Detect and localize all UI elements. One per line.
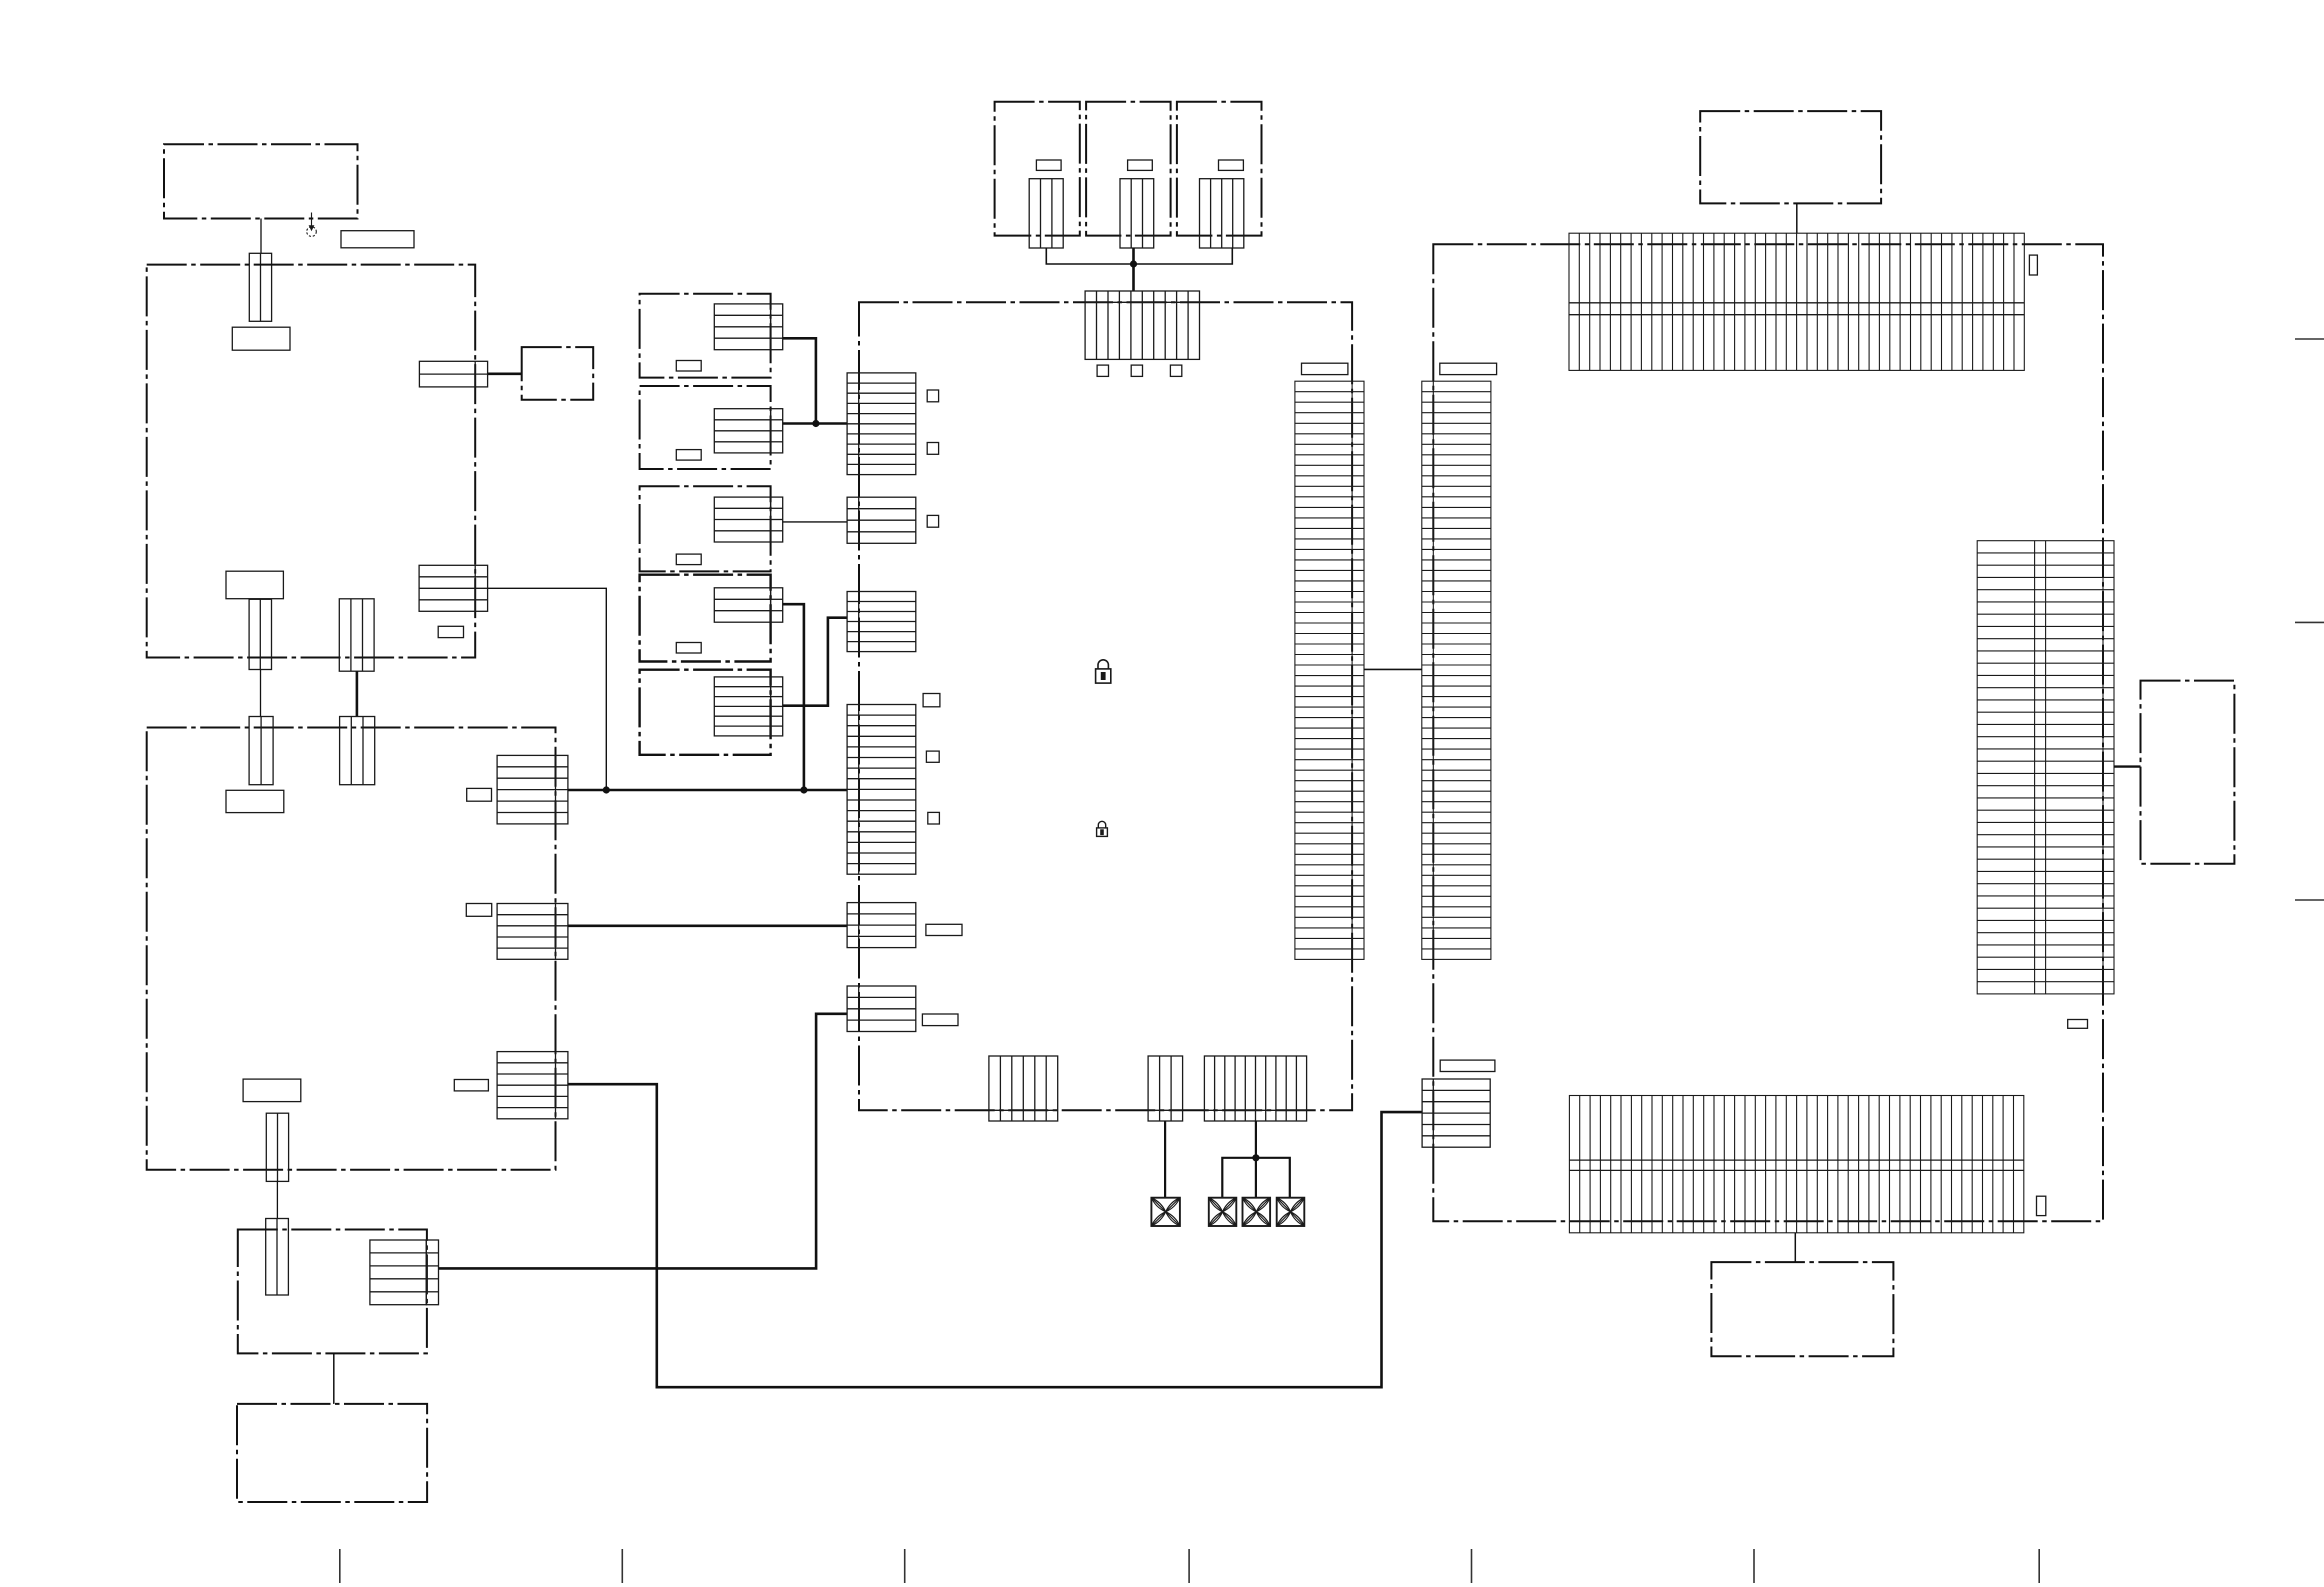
wire: R4 down to box W1 <box>1794 1233 1796 1262</box>
connector block P3 (6-row) on main board left edge <box>847 592 916 652</box>
connector CN-P7 (bottom, 6-pin) <box>989 1056 1058 1121</box>
pad square right of P1 (upper) <box>927 390 938 402</box>
label box above Q2 <box>1440 363 1497 374</box>
small pin box right of R4 <box>2037 1196 2046 1215</box>
connector CN-C1 (2-pin) on box C top edge <box>266 1219 289 1296</box>
connector CN-B3 (6-row) on board B right edge <box>497 755 568 824</box>
wire: T2 down to main board top connector <box>1132 248 1135 291</box>
junction: spine with M4 drop <box>800 786 807 793</box>
pad square 2 below CN-P0 <box>1131 365 1142 376</box>
connector block Q2 (55-row) on right board left edge <box>1422 381 1491 959</box>
small label box below R2 <box>2068 1020 2088 1029</box>
connector J1 (2-pin) on board A top edge <box>249 253 271 321</box>
wire: fan bus to fans 2 and 4 <box>1222 1158 1290 1198</box>
pad square right of P2 <box>927 515 938 527</box>
connector CN-M2 narrow pin column <box>771 409 783 453</box>
CN-P7 bottom strip line <box>989 1109 1058 1111</box>
connector block R1 (top, 44-pin) of right board <box>1569 233 2024 370</box>
connector CN-M3 (4-row) <box>714 497 770 542</box>
connector R3 (6-row) on right board left edge <box>1422 1079 1490 1147</box>
label box above R3 <box>1440 1060 1495 1071</box>
box C outline (dash-dot) <box>238 1230 427 1354</box>
label box (empty) near J1 <box>341 231 414 248</box>
connector CN-M4 narrow pin column <box>771 588 783 622</box>
connector CN-M2 (4-row) <box>714 409 770 453</box>
wire: Q1 to Q2 bridge <box>1364 668 1422 670</box>
label box inside board B (upper) <box>226 790 284 812</box>
box U1 (top-right, dash-dot) <box>1700 111 1881 203</box>
connector CN-A2 (2-pin) on board A bottom edge <box>249 599 271 669</box>
label box inside board A (lower) <box>226 571 283 599</box>
wire: CN-M4 right and down to spine <box>783 604 804 790</box>
wire: CN-A1 to small module box <box>488 372 522 375</box>
box V1 (far right, dash-dot) <box>2141 681 2235 864</box>
connector CN-B4 (5-row) on board B right edge <box>497 904 568 960</box>
label box in M4 <box>676 643 701 654</box>
connector CN-P8 (bottom, 3-pin) <box>1148 1056 1183 1121</box>
wire: CN-C2 right, up, into main board block P6 <box>439 1014 848 1269</box>
label box right of P6 <box>922 1014 958 1026</box>
connector CN-M3 narrow pin column <box>771 497 783 542</box>
CN-P9 bottom strip line <box>1204 1109 1306 1111</box>
label box in T2 <box>1128 160 1153 170</box>
connector CN-A3 (3-pin) on board A bottom edge <box>339 599 374 671</box>
connector CN-B2 (3-pin) on board B top edge <box>340 717 375 785</box>
junction: spine with CN-A4 drop <box>603 786 610 793</box>
connector CN-T2 (3-pin) <box>1120 179 1154 248</box>
pad square right of P4 (top) <box>923 694 940 707</box>
connector block R2 (right, 37-row) of right board <box>1977 541 2114 994</box>
connector CN-T3 (4-pin) <box>1200 179 1244 248</box>
pad square 3 below CN-P0 <box>1170 365 1181 376</box>
CN-P8 bottom strip line <box>1148 1109 1183 1111</box>
R4 band lines <box>1569 1160 2023 1170</box>
board B outline (dash-dot) <box>147 728 556 1170</box>
connector block P6 (4-row) on main board left edge <box>847 986 916 1032</box>
connector block P2 (4-row) on main board left edge <box>847 497 916 543</box>
connector CN-M1 (4-row) <box>714 304 770 350</box>
small label box left of CN-B5 <box>454 1080 488 1091</box>
label box in T3 <box>1219 160 1244 170</box>
pad square right of P1 (lower) <box>927 443 938 455</box>
right board outline (dash-dot) <box>1433 244 2103 1221</box>
wire: CN-M2 to main board block P1 <box>783 422 847 425</box>
connector CN-C2 narrow pin column <box>426 1240 438 1305</box>
fan M1 (fan motor symbol) <box>1151 1198 1180 1226</box>
connector block R4 (bottom, 44-pin) of right board <box>1569 1096 2023 1233</box>
wire: CN-M1 right and down <box>783 338 816 423</box>
board A outline (dash-dot) <box>147 265 476 658</box>
padlock icon (large) inside main board <box>1096 660 1111 683</box>
junction: fan bus <box>1252 1154 1259 1161</box>
wire: CN-P9 down to fan bus <box>1255 1121 1257 1158</box>
wire: spine CN-B3 to main board block P4 <box>568 789 847 792</box>
pad square right of P4 (bottom) <box>928 812 940 824</box>
label box in M1 <box>676 361 701 372</box>
wire: CN-A4 right then down to spine <box>488 588 607 790</box>
box M4 outline (dash-dot) <box>640 575 771 662</box>
pad square 1 below CN-P0 <box>1097 365 1108 376</box>
wire: box C to box D <box>333 1353 335 1404</box>
connector CN-T1 (3-pin) <box>1029 179 1063 248</box>
small label box left of CN-B4 <box>466 904 491 917</box>
wire: R2 to box V1 <box>2114 765 2141 767</box>
box T1 outline (dash-dot) <box>995 102 1080 236</box>
wire: CN-B5 long run to right board bottom connector <box>568 1084 1422 1387</box>
fan M2 (fan motor symbol) <box>1209 1198 1237 1226</box>
connector CN-P0 top strip line <box>1085 301 1199 303</box>
box W1 (bottom, dash-dot) <box>1711 1262 1893 1356</box>
connector CN-P9 (bottom, 10-pin) <box>1204 1056 1306 1121</box>
label box in M2 <box>676 450 701 461</box>
page fold tick marks (right edge) <box>2295 339 2324 900</box>
label box inside board B (lower) <box>243 1079 301 1102</box>
fan M4 (fan motor symbol) <box>1277 1198 1305 1226</box>
box T2 outline (dash-dot) <box>1086 102 1171 236</box>
wire: U1 down to right board top connector <box>1796 203 1798 233</box>
R1 band lines <box>1569 303 2024 315</box>
connector CN-B6 (2-pin) on board B bottom edge <box>266 1113 288 1181</box>
label box right of P5 <box>926 924 962 935</box>
connector block Q1 (55-row) on main board right edge <box>1295 381 1364 959</box>
connector CN-M5 narrow pin column <box>771 677 783 736</box>
small pin box right of R1 <box>2029 255 2037 275</box>
connector CN-A1 (2-row) on board A right edge <box>419 361 487 387</box>
box: small module (dash-dot) <box>522 347 594 400</box>
wire: CN-A2 down to CN-B1 <box>260 670 262 717</box>
wire: T1/T3 bus <box>1046 248 1232 264</box>
box M1 outline (dash-dot) <box>640 294 771 378</box>
wire: CN-P8 down to fan 1 <box>1164 1121 1166 1198</box>
connector CN-B5 (6-row) on board B right edge <box>497 1052 568 1119</box>
connector block P5 (4-row) on main board left edge <box>847 903 916 948</box>
padlock icon (small) inside main board <box>1097 821 1108 836</box>
box M2 outline (dash-dot) <box>640 386 771 469</box>
connector CN-B1 (2-pin) on board B top edge <box>249 717 273 785</box>
label box in M3 <box>676 554 701 565</box>
wire: CN-M5 right, up, into main board block P3 <box>783 618 847 706</box>
wire: top-left unit to connector J1 <box>260 219 262 254</box>
main board outline (dash-dot) <box>859 302 1352 1110</box>
connector CN-P0 (top, 10-pin) <box>1085 291 1199 359</box>
small label box left of CN-B3 <box>467 788 492 801</box>
wire: CN-M3 to main board block P2 <box>783 521 847 523</box>
junction: T bus with T2 drop <box>1130 260 1137 267</box>
label box inside board A (upper) <box>232 327 290 350</box>
connector CN-A4 (4-row) on board A right edge <box>419 565 488 611</box>
wire: CN-B4 to main board block P5 <box>568 924 847 927</box>
wire: CN-B6 down to CN-C1 <box>276 1181 278 1218</box>
box M3 outline (dash-dot) <box>640 486 771 571</box>
junction: M1 drop joins M2 wire <box>812 420 819 427</box>
connector block P1 (10-row) on main board left edge <box>847 373 916 475</box>
arrow-into-circle (plug-in point) symbol <box>307 213 317 237</box>
connector CN-C2 (5-row) on box C right edge <box>370 1240 426 1305</box>
connector CN-M1 narrow pin column <box>771 304 783 350</box>
label box above Q1 <box>1302 363 1348 374</box>
connector block P4 (16-row) on main board left edge <box>847 705 916 875</box>
box T3 outline (dash-dot) <box>1177 102 1262 236</box>
fan M3 (fan motor symbol) <box>1243 1198 1271 1226</box>
box M5 outline (dash-dot) <box>640 670 771 755</box>
box D outline (dash-dot) <box>237 1404 427 1502</box>
wire: fan bus down to fan 3 <box>1255 1158 1257 1198</box>
connector CN-M4 (3-row) <box>714 588 770 622</box>
pad square right of P4 (middle) <box>926 751 939 762</box>
page fold tick marks (bottom edge) <box>340 1549 2039 1583</box>
small label box below CN-A4 <box>438 626 463 637</box>
label box in T1 <box>1036 160 1061 170</box>
box: top-left unit (dash-dot outline) <box>164 144 358 218</box>
wire: CN-A3 down to CN-B2 <box>356 671 359 716</box>
connector CN-M5 (6-row) <box>714 677 770 736</box>
